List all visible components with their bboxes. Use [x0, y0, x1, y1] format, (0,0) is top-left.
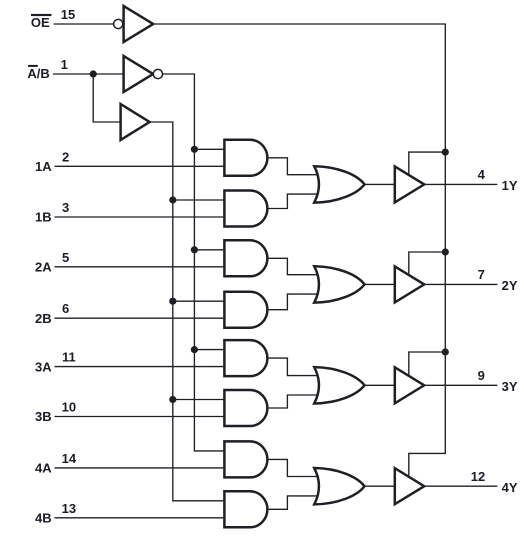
svg-text:13: 13 — [62, 501, 76, 516]
svg-text:4A: 4A — [35, 461, 52, 476]
svg-text:3B: 3B — [35, 409, 52, 424]
and-gate A6 — [224, 390, 267, 426]
svg-text:10: 10 — [62, 400, 76, 415]
wire A6 output to O3 bottom input — [267, 395, 320, 408]
wire input 1B to gate A2 — [55, 216, 225, 218]
wire A/B junction down to buffer U3 — [93, 74, 120, 122]
inverter U1 (OE) — [124, 6, 154, 42]
svg-text:4: 4 — [478, 167, 486, 182]
svg-text:2Y: 2Y — [502, 278, 518, 293]
svg-text:9: 9 — [478, 368, 485, 383]
wire input 3B to gate A6 — [55, 416, 225, 418]
wire A2 output to O1 bottom input — [267, 194, 320, 208]
junction OE rail at buffer B2 — [442, 248, 449, 255]
svg-text:2: 2 — [62, 149, 69, 164]
wire input 2B to gate A4 — [55, 317, 225, 319]
inverter U1 input bubble — [114, 19, 123, 28]
wire output 3Y — [424, 384, 497, 386]
svg-text:2B: 2B — [35, 311, 52, 326]
junction select-B rail at gate A6 — [169, 396, 176, 403]
buffer B4 (3-state) — [395, 468, 424, 504]
wire A7 output to O4 top input — [267, 459, 320, 476]
svg-text:6: 6 — [62, 301, 69, 316]
wire OE pin to inverter — [54, 23, 114, 25]
inverter U2 (select A) — [124, 56, 154, 92]
wire enable stub to buffer B1 — [409, 152, 446, 175]
or-gate O4 — [314, 468, 364, 504]
junction select-B rail at gate A2 — [169, 196, 176, 203]
buffer B1 (3-state) — [395, 166, 424, 202]
svg-text:5: 5 — [62, 250, 69, 265]
or-gate O1 — [314, 166, 364, 202]
svg-text:4Y: 4Y — [502, 480, 518, 495]
wire select-A rail (inverted A/B) to 4A gate — [162, 74, 224, 451]
wire A5 output to O3 top input — [267, 358, 320, 376]
junction select-A rail at gate A5 — [191, 346, 198, 353]
and-gate A7 — [224, 441, 267, 477]
svg-text:4B: 4B — [35, 511, 52, 526]
and-gate A4 — [224, 292, 267, 328]
svg-text:3Y: 3Y — [502, 379, 518, 394]
inverter U2 output bubble — [153, 69, 162, 78]
wire A3 output to O2 top input — [267, 258, 320, 274]
wire select-A tap to gate A1 — [194, 148, 224, 150]
wire A/B pin to inverter U2 — [53, 73, 124, 75]
wire select-A tap to gate A3 — [194, 249, 224, 251]
and-gate A5 — [224, 340, 267, 376]
junction select-A rail at gate A3 — [191, 246, 198, 253]
wire enable stub to buffer B3 — [409, 352, 446, 376]
svg-text:7: 7 — [478, 267, 485, 282]
wire select-B tap to gate A2 — [173, 199, 225, 201]
and-gate A1 — [224, 140, 267, 176]
wire O4 output to buffer B4 — [365, 485, 395, 487]
wire output 4Y — [424, 485, 497, 487]
buffer U3 (select B) — [121, 104, 150, 140]
svg-text:1: 1 — [61, 57, 68, 72]
wire O1 output to buffer B1 — [365, 183, 395, 185]
wire output 2Y — [424, 283, 497, 285]
wire input 1A to gate A1 — [55, 165, 225, 167]
svg-text:A/B: A/B — [27, 66, 49, 81]
wire input 3A to gate A5 — [55, 366, 225, 368]
svg-text:3A: 3A — [35, 359, 52, 374]
junction on A/B input — [90, 70, 97, 77]
svg-text:1Y: 1Y — [502, 178, 518, 193]
wire select-B tap to gate A6 — [173, 399, 225, 401]
wire OE rail: top run and right vertical to row-4 enable — [153, 24, 445, 477]
svg-text:OE: OE — [31, 15, 50, 30]
svg-text:3: 3 — [62, 200, 69, 215]
junction select-A rail at gate A1 — [191, 146, 198, 153]
svg-text:1B: 1B — [35, 210, 52, 225]
and-gate A3 — [224, 240, 267, 276]
wire enable stub to buffer B2 — [409, 252, 446, 275]
wire select-B tap to gate A4 — [173, 300, 225, 302]
wire A8 output to O4 bottom input — [267, 496, 320, 509]
wire A4 output to O2 bottom input — [267, 294, 320, 310]
svg-text:11: 11 — [62, 350, 76, 365]
wire select-A tap to gate A5 — [194, 349, 224, 351]
wire A1 output to O1 top input — [267, 158, 320, 175]
svg-text:12: 12 — [471, 469, 485, 484]
buffer B2 (3-state) — [395, 266, 424, 302]
svg-text:1A: 1A — [35, 159, 52, 174]
svg-text:2A: 2A — [35, 260, 52, 275]
buffer B3 (3-state) — [395, 367, 424, 403]
wire output 1Y — [424, 183, 497, 185]
wire select-B rail (buffered A/B) to 4B gate — [150, 122, 225, 501]
svg-text:15: 15 — [61, 7, 75, 22]
wire O2 output to buffer B2 — [365, 283, 395, 285]
and-gate A8 — [224, 491, 267, 527]
junction OE rail at buffer B3 — [442, 348, 449, 355]
and-gate A2 — [224, 191, 267, 227]
wire input 2A to gate A3 — [55, 266, 225, 268]
or-gate O3 — [314, 367, 364, 403]
junction OE rail at buffer B1 — [442, 149, 449, 156]
or-gate O2 — [314, 266, 364, 302]
wire input 4B to gate A8 — [55, 517, 225, 519]
junction select-B rail at gate A4 — [169, 298, 176, 305]
wire input 4A to gate A7 — [55, 467, 225, 469]
svg-text:14: 14 — [62, 451, 77, 466]
wire O3 output to buffer B3 — [365, 384, 395, 386]
